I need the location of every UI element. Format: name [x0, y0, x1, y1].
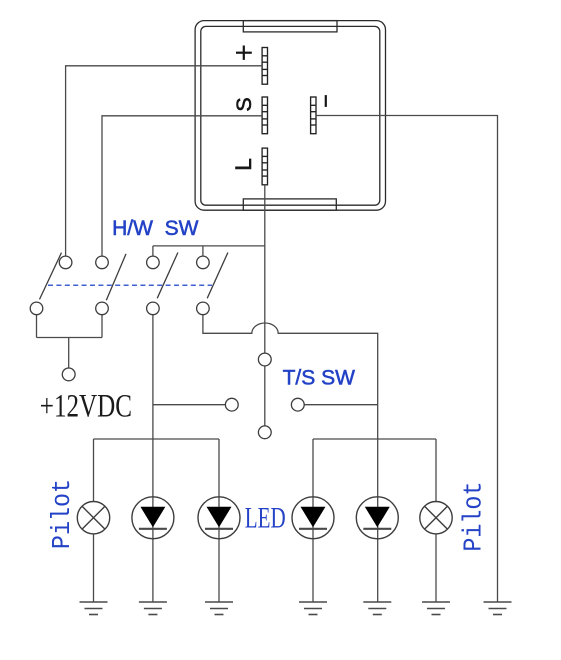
svg-text:Pilot: Pilot: [48, 479, 77, 549]
svg-text:L: L: [231, 158, 256, 171]
svg-text:+12VDC: +12VDC: [40, 389, 132, 425]
svg-text:Pilot: Pilot: [460, 482, 489, 552]
svg-text:H/W SW: H/W SW: [112, 217, 198, 240]
svg-text:S: S: [232, 97, 256, 111]
svg-text:LED: LED: [245, 501, 286, 534]
svg-text:T/S SW: T/S SW: [283, 367, 356, 390]
